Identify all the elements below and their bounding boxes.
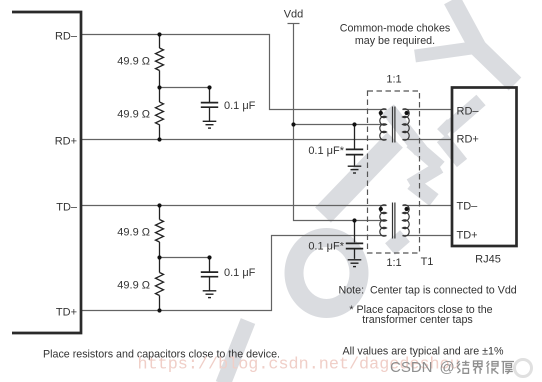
- svg-text:RJ45: RJ45: [475, 253, 501, 265]
- svg-text:Vdd: Vdd: [284, 8, 304, 20]
- svg-text:0.1 μF*: 0.1 μF*: [308, 240, 344, 252]
- svg-text:RD–: RD–: [457, 105, 480, 117]
- svg-text:Note: Center tap is connected: Note: Center tap is connected to Vdd: [339, 284, 517, 296]
- svg-text:49.9 Ω: 49.9 Ω: [117, 56, 150, 68]
- svg-text:49.9 Ω: 49.9 Ω: [117, 109, 150, 121]
- svg-text:1:1: 1:1: [386, 73, 401, 85]
- svg-text:T1: T1: [421, 256, 434, 268]
- svg-text:49.9 Ω: 49.9 Ω: [117, 227, 150, 239]
- svg-text:@: @: [440, 359, 455, 376]
- svg-text:49.9 Ω: 49.9 Ω: [117, 280, 150, 292]
- svg-text:transformer center taps: transformer center taps: [362, 314, 472, 326]
- svg-text:TD–: TD–: [56, 201, 78, 213]
- svg-text:TD+: TD+: [457, 229, 478, 241]
- svg-text:0.1 μF*: 0.1 μF*: [308, 145, 344, 157]
- svg-text:RD–: RD–: [55, 30, 78, 42]
- svg-text:may be required.: may be required.: [355, 35, 435, 47]
- svg-text:Common-mode chokes: Common-mode chokes: [340, 22, 450, 34]
- svg-text:CSDN: CSDN: [390, 359, 433, 376]
- svg-text:0.1 μF: 0.1 μF: [224, 267, 256, 279]
- svg-text:RD+: RD+: [55, 136, 77, 148]
- svg-text:TD+: TD+: [56, 307, 77, 319]
- svg-text:TD–: TD–: [457, 200, 479, 212]
- svg-text:1:1: 1:1: [386, 257, 401, 269]
- svg-text:RD+: RD+: [457, 133, 479, 145]
- svg-text:0.1 μF: 0.1 μF: [224, 100, 256, 112]
